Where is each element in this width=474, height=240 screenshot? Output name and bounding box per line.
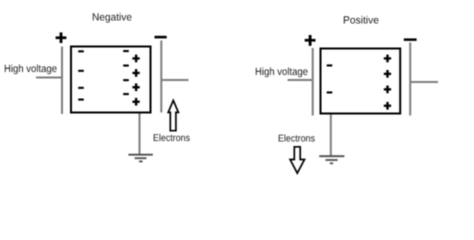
electron flow arrow (down) — [290, 147, 304, 173]
label "High voltage" — [5, 64, 57, 74]
right plate (electrode) — [160, 41, 162, 113]
label "Negative" — [93, 13, 132, 23]
label "High voltage" — [256, 67, 308, 77]
- terminal (top of right plate) — [155, 36, 167, 39]
box (tube body) — [321, 49, 401, 114]
wire (high voltage feed, left) — [288, 79, 313, 81]
wire (box to ground) — [330, 115, 332, 156]
inner dipole pairs: minus marks (right column) — [123, 50, 129, 95]
wire (box to ground) — [139, 114, 141, 155]
electron flow arrow (up) — [168, 100, 178, 130]
ground — [319, 156, 344, 163]
- terminal (top of right plate) — [404, 38, 417, 41]
label "Positive" — [344, 16, 379, 24]
inner positive charges (right column, 4 plus) — [384, 55, 391, 110]
label "Electrons" (right) — [279, 134, 315, 141]
+ terminal (top of left plate) — [56, 32, 67, 43]
wire (output, right) — [162, 79, 189, 81]
wire (output, right) — [411, 81, 438, 83]
inner negative charges (left, 2 marks) — [327, 64, 333, 93]
left plate (electrode) — [61, 47, 63, 115]
left plate (electrode) — [312, 48, 314, 116]
inner negative charges (left column) — [78, 50, 84, 100]
+ terminal (top of left plate) — [305, 35, 316, 46]
box (tube body) — [71, 47, 151, 113]
ground — [128, 155, 152, 162]
wire (high voltage feed, left) — [36, 77, 62, 79]
label "Electrons" (left) — [154, 134, 190, 141]
inner dipole pairs: plus marks (right column) — [132, 55, 139, 106]
right plate (electrode) — [409, 43, 411, 116]
